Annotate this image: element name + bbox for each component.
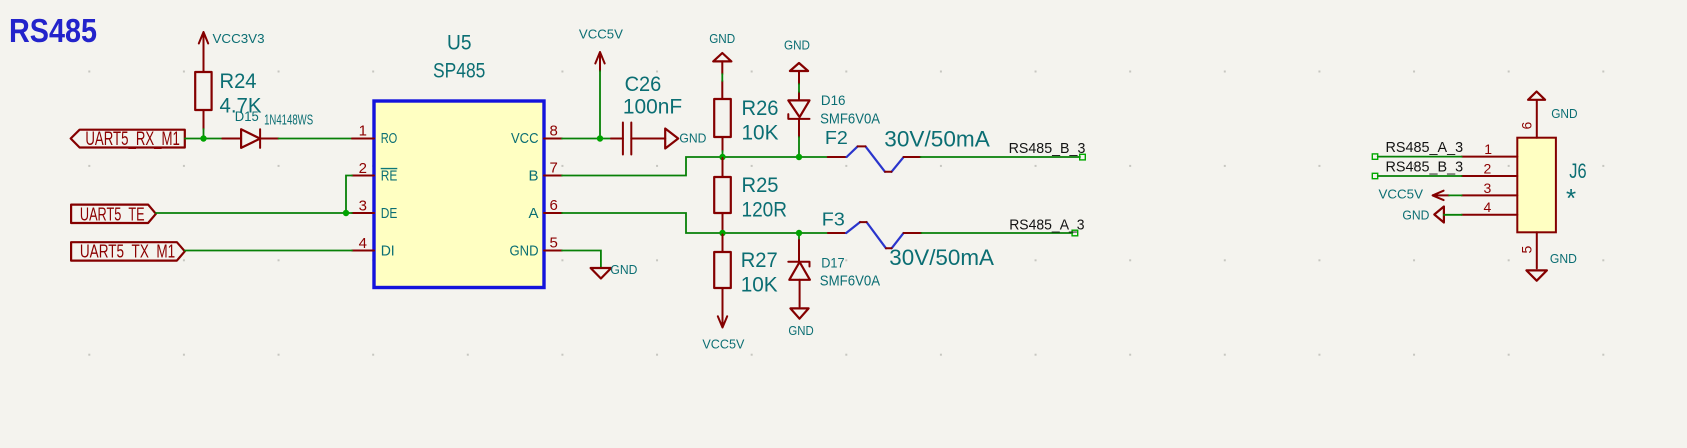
wire U5 pin5 to ground <box>562 251 601 269</box>
svg-text:GND: GND <box>610 262 637 277</box>
svg-text:VCC5V: VCC5V <box>1379 186 1424 201</box>
svg-text:VCC: VCC <box>511 130 539 147</box>
junction D17 on net A <box>796 230 802 236</box>
resistor R27 <box>714 235 778 297</box>
power symbol VCC5V at J6 pin 3 <box>1379 186 1450 201</box>
fuse F2 30V/50mA <box>825 127 990 172</box>
unconnected end square net A <box>1072 230 1078 236</box>
TVS diode D17 SMF6V0A <box>788 233 880 307</box>
wire VCC5V to J6 pin 3 <box>1449 194 1462 196</box>
svg-text:RE: RE <box>381 167 398 184</box>
svg-text:5: 5 <box>1519 246 1535 254</box>
U5 pin 7 B <box>528 160 562 185</box>
U5 pin 1 RO <box>352 123 397 147</box>
ground symbol below D17 <box>788 308 813 338</box>
svg-text:D16: D16 <box>821 92 846 108</box>
svg-text:F3: F3 <box>822 209 845 229</box>
wire RS485_B_3 to J6 pin 2 <box>1378 175 1462 177</box>
svg-text:1: 1 <box>359 123 367 140</box>
U5 pin 8 VCC <box>511 123 562 147</box>
J6 pin 1 <box>1462 141 1518 157</box>
U5 pin 4 DI <box>352 235 395 259</box>
svg-text:5: 5 <box>550 235 558 252</box>
svg-text:B: B <box>528 167 538 184</box>
resistor R25 termination <box>714 158 787 232</box>
svg-text:D17: D17 <box>821 255 845 271</box>
svg-text:30V/50mA: 30V/50mA <box>889 245 994 270</box>
svg-text:10K: 10K <box>741 273 778 296</box>
svg-text:D15: D15 <box>235 108 259 124</box>
svg-text:GND: GND <box>510 242 539 259</box>
resistor R26 <box>714 97 778 157</box>
svg-text:7: 7 <box>550 160 558 177</box>
svg-text:RS485_A_3: RS485_A_3 <box>1009 217 1084 234</box>
fuse F3 30V/50mA <box>822 209 995 270</box>
connector J6 body <box>1517 138 1586 233</box>
svg-text:4: 4 <box>1484 199 1492 215</box>
svg-text:2: 2 <box>1484 160 1492 176</box>
U5 pin 5 GND <box>510 235 563 260</box>
unconnected end square at J6 pin 1 wire <box>1372 154 1377 159</box>
svg-text:RS485_B_3: RS485_B_3 <box>1009 140 1086 157</box>
hierarchical label UART5_TX_M1 <box>71 241 185 263</box>
junction at R24/RX node <box>200 135 206 141</box>
svg-text:UART5_TE: UART5_TE <box>80 204 145 226</box>
U5 pin 6 A <box>528 197 562 222</box>
junction at VCC node <box>597 135 603 141</box>
J6 pin 2 <box>1462 160 1518 176</box>
ground flag right of C26 <box>665 129 706 149</box>
junction R25 bottom on net A <box>719 230 725 236</box>
svg-text:1N4148WS: 1N4148WS <box>264 112 313 129</box>
svg-text:U5: U5 <box>447 32 472 55</box>
svg-text:*: * <box>1566 183 1576 213</box>
svg-text:J6: J6 <box>1569 160 1586 183</box>
svg-text:SP485: SP485 <box>433 60 485 83</box>
ground symbol above R26 <box>709 31 735 99</box>
IC U5 SP485 body <box>374 32 544 288</box>
svg-text:RS485_B_3: RS485_B_3 <box>1386 158 1464 175</box>
ground symbol at U5 pin5 <box>591 262 638 279</box>
TVS diode D16 SMF6V0A <box>788 92 880 157</box>
wire net B from pin7 to fuse F2 <box>562 157 828 176</box>
svg-text:RO: RO <box>381 130 398 147</box>
svg-text:R27: R27 <box>741 249 778 272</box>
svg-text:R24: R24 <box>220 70 257 93</box>
wire label to junction <box>185 138 223 140</box>
wire RS485_A_3 to J6 pin 1 <box>1378 156 1462 158</box>
svg-text:RS485_A_3: RS485_A_3 <box>1386 139 1464 156</box>
svg-text:A: A <box>528 205 538 222</box>
svg-text:3: 3 <box>1484 180 1492 196</box>
capacitor C26 100nF <box>611 73 682 155</box>
ground symbol above J6 pin 6 <box>1528 92 1578 121</box>
svg-text:SMF6V0A: SMF6V0A <box>820 111 880 128</box>
svg-text:DI: DI <box>381 242 395 259</box>
svg-text:C26: C26 <box>625 73 662 96</box>
svg-text:GND: GND <box>784 38 810 53</box>
hierarchical label UART5_RX_M1 <box>71 129 185 150</box>
svg-text:GND: GND <box>1550 251 1577 266</box>
svg-text:6: 6 <box>1519 122 1535 130</box>
junction DE/RE node <box>343 210 349 216</box>
svg-text:VCC5V: VCC5V <box>579 27 623 42</box>
wire pin8 to VCC5V and C26 <box>562 71 611 139</box>
svg-text:RS485: RS485 <box>9 12 97 49</box>
svg-text:R25: R25 <box>742 174 779 197</box>
junction D16 on net B <box>796 154 802 160</box>
J6 pin 5 <box>1519 232 1537 268</box>
J6 pin 4 <box>1462 199 1518 215</box>
wire net A from pin6 to fuse F3 <box>562 213 828 233</box>
junction R26 bottom on net B <box>719 154 725 160</box>
diode D15 1N4148WS <box>222 108 313 148</box>
wire UART5_TE to DE junction <box>156 176 352 214</box>
svg-text:R26: R26 <box>742 97 779 120</box>
ground symbol at J6 pin 4 <box>1402 207 1444 223</box>
wire UART5_TX_M1 to pin 4 <box>185 250 352 252</box>
U5 pin 3 DE <box>352 198 397 222</box>
svg-text:GND: GND <box>679 130 706 145</box>
svg-text:3: 3 <box>359 198 367 215</box>
svg-text:UART5_RX_M1: UART5_RX_M1 <box>85 129 179 150</box>
unconnected end square at J6 pin 2 wire <box>1372 173 1377 178</box>
svg-text:DE: DE <box>381 205 398 222</box>
svg-text:30V/50mA: 30V/50mA <box>884 127 990 152</box>
wire net A to label <box>921 232 1072 234</box>
svg-text:GND: GND <box>709 31 735 46</box>
power symbol VCC3V3 <box>199 31 265 72</box>
wire net B to label <box>921 156 1080 158</box>
svg-text:1: 1 <box>1484 141 1492 157</box>
svg-text:SMF6V0A: SMF6V0A <box>820 272 880 289</box>
hierarchical label UART5_TE <box>71 204 156 226</box>
svg-text:100nF: 100nF <box>623 96 682 119</box>
J6 pin 6 <box>1519 101 1537 138</box>
ground symbol below J6 pin 5 <box>1526 251 1577 281</box>
svg-text:VCC3V3: VCC3V3 <box>213 31 265 46</box>
wire ground to J6 pin 4 <box>1444 214 1462 216</box>
svg-text:GND: GND <box>1551 106 1577 121</box>
svg-text:10K: 10K <box>742 121 779 144</box>
wire D15 to pin1 <box>279 138 353 140</box>
svg-text:8: 8 <box>550 123 558 140</box>
svg-text:2: 2 <box>359 160 367 177</box>
ground symbol above D16 <box>784 38 810 101</box>
svg-text:VCC5V: VCC5V <box>702 336 744 351</box>
svg-text:GND: GND <box>1402 207 1429 222</box>
U5 pin 2 RE (active low) <box>352 160 397 184</box>
unconnected end square net B <box>1080 154 1086 160</box>
svg-text:6: 6 <box>550 197 558 214</box>
svg-text:UART5_TX_M1: UART5_TX_M1 <box>80 241 175 263</box>
svg-text:F2: F2 <box>825 128 848 148</box>
J6 pin 3 <box>1462 180 1518 196</box>
power symbol VCC5V below R27 <box>702 288 744 351</box>
svg-text:GND: GND <box>788 323 813 338</box>
wire R24 to junction <box>203 129 205 139</box>
svg-text:4: 4 <box>359 235 367 252</box>
power symbol VCC5V at U5 pin 8 <box>579 27 623 71</box>
svg-text:120R: 120R <box>742 198 788 221</box>
resistor R24 <box>195 70 261 129</box>
